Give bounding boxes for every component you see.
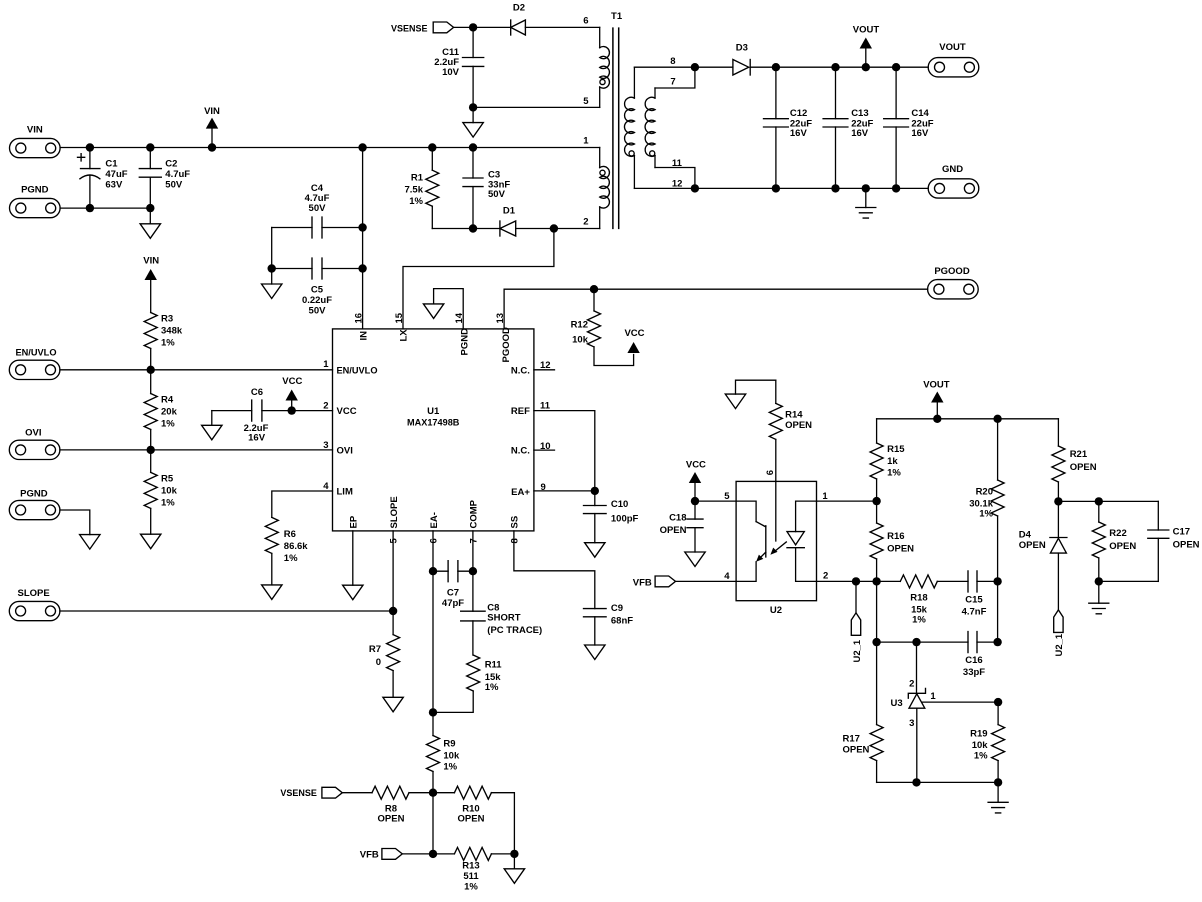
wire LIM to R6: [272, 491, 333, 517]
net flag VFB (bottom): [360, 849, 403, 861]
capacitor C13: [823, 67, 873, 188]
ground at EP: [343, 531, 363, 600]
svg-text:7: 7: [468, 538, 479, 543]
connector GND J4: [928, 164, 979, 198]
resistor R12: [571, 289, 634, 365]
svg-text:EA+: EA+: [511, 487, 530, 498]
junction SLOPE: [389, 607, 397, 615]
resistor R6: [265, 517, 308, 585]
U1 pin 11 REF label: [511, 401, 551, 418]
svg-text:C12: C12: [790, 108, 807, 119]
svg-text:348k: 348k: [161, 326, 183, 337]
svg-text:D4: D4: [1019, 529, 1032, 540]
resistor R22: [1092, 501, 1136, 581]
junction R19 top: [994, 698, 1002, 706]
U1 pin 13 PGOOD label: [495, 313, 512, 363]
ground below PGND stub: [80, 535, 100, 550]
junction C5 right: [358, 264, 366, 272]
svg-text:N.C.: N.C.: [511, 446, 530, 457]
svg-text:4.7nF: 4.7nF: [962, 607, 987, 618]
svg-text:6: 6: [765, 470, 776, 475]
U1 pin 3 OVI label: [323, 440, 353, 457]
svg-text:4: 4: [724, 571, 730, 582]
svg-text:PGND: PGND: [20, 488, 48, 499]
ground below R6: [262, 585, 282, 600]
svg-text:50V: 50V: [488, 189, 506, 200]
shunt regulator U3: [891, 642, 937, 729]
svg-text:50V: 50V: [165, 180, 183, 191]
svg-text:N.C.: N.C.: [511, 365, 530, 376]
capacitor C11: [434, 27, 484, 107]
capacitor C9: [584, 603, 634, 645]
U1 pin 5 SLOPE label: [389, 496, 400, 543]
wire EA+ net: [534, 490, 595, 492]
svg-text:C6: C6: [251, 387, 263, 398]
svg-text:(PC TRACE): (PC TRACE): [487, 625, 542, 636]
ground at C6: [202, 411, 222, 440]
U1 N.C. stub pin 10: [534, 449, 555, 451]
svg-text:OPEN: OPEN: [1109, 541, 1136, 552]
transformer T1 secondary winding 7-11: [645, 88, 655, 168]
svg-text:VCC: VCC: [686, 460, 706, 471]
svg-text:R3: R3: [161, 314, 173, 325]
power flag VIN at R3: [143, 255, 159, 312]
transformer T1 core: [613, 27, 619, 229]
svg-text:0: 0: [376, 657, 381, 668]
wire U2 pin 2 to R18 row: [817, 580, 901, 582]
earth ground below R22: [1089, 581, 1109, 613]
svg-text:D2: D2: [513, 2, 525, 13]
net flag VSENSE (bottom): [280, 787, 342, 799]
svg-text:VIN: VIN: [204, 106, 220, 117]
wire R1/C3 bottom row: [432, 228, 500, 230]
svg-text:1: 1: [323, 359, 329, 370]
net flag U2_1 (left): [851, 581, 863, 662]
connector PGOOD J5: [928, 266, 979, 299]
U1 pin 6 EA- label: [428, 512, 439, 543]
svg-text:MAX17498B: MAX17498B: [407, 418, 460, 429]
capacitor C7: [433, 561, 473, 610]
capacitor C15: [962, 571, 998, 618]
power flag VOUT (top): [853, 25, 880, 68]
svg-text:EN/UVLO: EN/UVLO: [337, 365, 378, 376]
wire VIN rail: [60, 147, 600, 149]
wire U2 pin 1 to R15/R16: [817, 500, 877, 502]
junction U3 pin3 bottom: [912, 778, 920, 786]
wire pin 8 to D3: [695, 66, 733, 68]
capacitor C3: [463, 148, 510, 229]
junction IN drop / rail: [358, 143, 366, 151]
ground below R7: [383, 697, 403, 712]
wire T1 pin 11 link: [655, 168, 695, 189]
wire VSENSE to D2: [454, 26, 511, 28]
ground below C18: [685, 552, 705, 567]
junction R9 top: [429, 708, 437, 716]
capacitor C6: [212, 387, 333, 444]
junction U2 pin1/R15/R16: [872, 497, 880, 505]
svg-text:OVI: OVI: [25, 428, 41, 439]
junction earth: [862, 184, 870, 192]
wire REF net: [534, 411, 595, 491]
svg-text:R15: R15: [887, 444, 905, 455]
svg-text:OPEN: OPEN: [1070, 462, 1097, 473]
wire R22/C17 bottom row: [1099, 580, 1159, 582]
ground below R5: [141, 534, 161, 549]
junction pins 7/8: [691, 63, 699, 71]
svg-text:OPEN: OPEN: [660, 525, 687, 536]
svg-text:EP: EP: [349, 515, 360, 528]
svg-text:2: 2: [909, 679, 914, 690]
U1 pin 14 PGND label: [454, 312, 470, 355]
capacitor C8: [461, 603, 542, 655]
svg-text:R4: R4: [161, 395, 174, 406]
svg-text:3: 3: [909, 718, 914, 729]
U1 pin 12 N.C. label: [511, 360, 551, 376]
svg-text:OVI: OVI: [337, 446, 353, 457]
junction R3/R4: [147, 366, 155, 374]
svg-text:2: 2: [323, 401, 328, 412]
svg-text:R21: R21: [1070, 449, 1088, 460]
svg-text:1%: 1%: [161, 498, 175, 509]
junction U3 tap: [912, 638, 920, 646]
svg-text:VCC: VCC: [282, 376, 302, 387]
svg-text:63V: 63V: [105, 180, 123, 191]
svg-text:C2: C2: [165, 159, 177, 170]
wire R9 bottom to VFB: [432, 793, 434, 854]
wire SLOPE pin 5 drop: [392, 531, 394, 611]
resistor R13: [433, 847, 514, 892]
svg-text:6: 6: [428, 538, 439, 543]
capacitor C16: [963, 632, 998, 678]
power flag VCC at U2: [686, 460, 706, 501]
svg-text:PGOOD: PGOOD: [501, 327, 512, 363]
svg-text:R9: R9: [443, 738, 455, 749]
wire T1 pin 8 out: [634, 66, 695, 68]
svg-text:1: 1: [583, 136, 589, 147]
svg-text:VIN: VIN: [27, 125, 43, 136]
junction VIN flag: [208, 143, 216, 151]
connector PGND J2: [10, 185, 61, 218]
svg-text:VCC: VCC: [624, 328, 644, 339]
svg-text:LIM: LIM: [337, 487, 353, 498]
resistor R5: [144, 450, 177, 534]
junction R19 bottom: [994, 778, 1002, 786]
resistor R3: [144, 313, 183, 370]
svg-text:EN/UVLO: EN/UVLO: [16, 347, 57, 358]
svg-text:C18: C18: [669, 513, 686, 524]
svg-text:VCC: VCC: [337, 406, 357, 417]
diode D1: [500, 206, 516, 237]
wire COMP pin 7 drop: [472, 531, 474, 611]
svg-text:VSENSE: VSENSE: [280, 788, 317, 799]
svg-text:R5: R5: [161, 474, 174, 485]
ground below C5 left: [262, 269, 282, 299]
wire R20 bottom to C16 row: [997, 581, 999, 642]
wire R16 bottom to C16 row: [876, 581, 878, 642]
resistor R10: [433, 786, 514, 854]
junction R20 top: [993, 415, 1001, 423]
wire T1 pin 7 link: [655, 67, 695, 88]
junction C16 right: [993, 638, 1001, 646]
svg-text:0.22uF: 0.22uF: [302, 295, 332, 306]
resistor R19: [970, 702, 1004, 782]
svg-text:8: 8: [670, 56, 675, 67]
wire SLOPE net: [60, 610, 393, 612]
svg-text:2: 2: [823, 571, 828, 582]
svg-text:68nF: 68nF: [611, 616, 633, 627]
svg-text:8: 8: [509, 538, 520, 543]
capacitor C4: [272, 183, 363, 238]
U1 pin 4 LIM label: [323, 481, 353, 498]
svg-text:1%: 1%: [284, 553, 298, 564]
svg-text:16: 16: [354, 313, 365, 324]
capacitor C12: [764, 67, 813, 188]
svg-text:OPEN: OPEN: [378, 814, 405, 825]
svg-text:1%: 1%: [974, 751, 988, 762]
svg-text:2: 2: [583, 217, 588, 228]
svg-text:PGND: PGND: [21, 185, 49, 196]
ground below C2: [140, 208, 160, 238]
resistor R11: [433, 655, 502, 712]
svg-text:12: 12: [672, 179, 683, 190]
diode D2: [511, 2, 526, 35]
wire bottom row U3: [877, 781, 999, 783]
ground at R14: [725, 380, 776, 408]
resistor R9: [427, 712, 460, 792]
resistor R8: [372, 786, 433, 824]
junction C15 right: [993, 577, 1001, 585]
resistor R1: [405, 148, 439, 229]
power flag VOUT (right): [923, 380, 950, 419]
svg-text:SHORT: SHORT: [487, 613, 520, 624]
svg-text:VFB: VFB: [360, 849, 379, 860]
svg-text:OPEN: OPEN: [1019, 540, 1046, 551]
svg-text:GND: GND: [942, 164, 963, 175]
U1 pin 7 COMP label: [468, 499, 479, 543]
wire OVI net: [60, 449, 333, 451]
svg-text:R17: R17: [843, 734, 860, 745]
junction C16 row left: [872, 638, 880, 646]
svg-text:IN: IN: [359, 331, 370, 341]
svg-text:1%: 1%: [161, 419, 175, 430]
power flag VCC at R12: [624, 328, 644, 353]
ground below R13: [504, 854, 524, 883]
capacitor C5: [272, 258, 363, 317]
svg-text:C17: C17: [1173, 526, 1190, 537]
resistor R4: [144, 370, 177, 450]
svg-text:R12: R12: [571, 320, 588, 331]
svg-text:1%: 1%: [161, 338, 175, 349]
capacitor C18: [660, 501, 703, 552]
svg-text:R13: R13: [462, 860, 479, 871]
svg-text:1%: 1%: [979, 508, 993, 519]
svg-text:1k: 1k: [887, 456, 898, 467]
svg-text:U2_1: U2_1: [852, 639, 863, 662]
junction U2_1 tap: [852, 577, 860, 585]
svg-text:C5: C5: [311, 285, 324, 296]
svg-text:10k: 10k: [972, 740, 989, 751]
wire EA- pin 6 drop: [432, 531, 434, 713]
svg-text:R16: R16: [887, 531, 904, 542]
capacitor C10: [584, 491, 639, 543]
ground below C11: [463, 107, 483, 137]
svg-text:1%: 1%: [409, 196, 423, 207]
junction R10/R13: [510, 850, 518, 858]
svg-text:16V: 16V: [790, 128, 808, 139]
junction R8/R9/R10: [429, 789, 437, 797]
wire PGND rail: [60, 207, 150, 209]
svg-text:PGND: PGND: [460, 328, 471, 356]
resistor R18: [900, 575, 968, 626]
connector PGND J8: [9, 488, 60, 519]
svg-text:U2: U2: [770, 605, 782, 616]
power flag VIN on rail: [204, 106, 220, 148]
svg-text:20k: 20k: [161, 407, 178, 418]
svg-text:EA-: EA-: [429, 512, 440, 528]
connector VIN J1: [10, 125, 61, 158]
svg-text:OPEN: OPEN: [887, 543, 914, 554]
wire PGND stub: [60, 510, 90, 535]
capacitor C2: [139, 148, 190, 209]
svg-text:4: 4: [323, 481, 329, 492]
wire VCC to U2 pin 5: [695, 500, 736, 502]
resistor R14: [769, 380, 812, 481]
net flag VFB (middle): [633, 576, 676, 588]
svg-text:R11: R11: [485, 660, 503, 671]
svg-text:1%: 1%: [485, 682, 499, 693]
junction C2 top: [146, 143, 154, 151]
junction C7 left: [429, 567, 437, 575]
svg-text:U1: U1: [427, 406, 440, 417]
wire VOUT rail right: [877, 418, 1059, 420]
resistor R21: [1052, 419, 1097, 502]
svg-text:R22: R22: [1109, 528, 1126, 539]
ground at pin 14 PGND: [423, 289, 463, 329]
wire C16 row: [877, 641, 968, 643]
svg-text:VIN: VIN: [143, 255, 159, 266]
ground below C9: [585, 645, 605, 660]
svg-text:SS: SS: [510, 516, 521, 529]
U1 pin 9 EA+ label: [511, 482, 546, 498]
U1 pin 2 VCC label: [323, 401, 356, 418]
svg-text:VSENSE: VSENSE: [391, 23, 428, 34]
svg-text:C1: C1: [105, 159, 118, 170]
junction C11 top: [469, 23, 477, 31]
svg-text:11: 11: [540, 401, 551, 412]
diode D3: [733, 43, 750, 76]
svg-text:VFB: VFB: [633, 577, 652, 588]
ground below C10: [585, 543, 605, 558]
junction R16 bottom: [872, 577, 880, 585]
svg-text:C9: C9: [611, 603, 623, 614]
svg-text:10V: 10V: [442, 67, 460, 78]
svg-text:SLOPE: SLOPE: [389, 496, 400, 528]
svg-text:511: 511: [463, 871, 479, 882]
resistor R16: [870, 501, 914, 581]
svg-text:VOUT: VOUT: [853, 25, 880, 36]
U1 pin 8 SS label: [509, 516, 520, 544]
connector OVI J7: [9, 428, 60, 460]
junction C2 bottom: [146, 204, 154, 212]
svg-text:VOUT: VOUT: [923, 380, 950, 391]
junction VCC pin 2: [288, 406, 296, 414]
svg-text:C7: C7: [447, 587, 459, 598]
svg-text:C13: C13: [851, 108, 868, 119]
transformer T1 primary winding 6-5: [600, 27, 610, 107]
wire VOUT top rail: [750, 66, 928, 68]
wire EN/UVLO net: [60, 369, 333, 371]
svg-text:1%: 1%: [464, 882, 478, 893]
svg-text:SLOPE: SLOPE: [17, 588, 49, 599]
svg-text:T1: T1: [611, 11, 623, 22]
svg-text:R6: R6: [284, 529, 296, 540]
svg-text:47pF: 47pF: [442, 598, 464, 609]
junction C14 bottom: [892, 184, 900, 192]
svg-text:1%: 1%: [887, 468, 901, 479]
wire VSENSE to R8: [342, 792, 372, 794]
junction R21 bottom: [1054, 497, 1062, 505]
wire SS net: [514, 531, 595, 609]
svg-text:16V: 16V: [911, 128, 929, 139]
svg-text:C14: C14: [911, 108, 929, 119]
svg-text:1%: 1%: [912, 615, 926, 626]
junction REF/EA+: [591, 487, 599, 495]
svg-text:OPEN: OPEN: [1173, 539, 1200, 550]
junction R12 top: [590, 285, 598, 293]
svg-text:50V: 50V: [309, 203, 327, 214]
svg-text:16V: 16V: [851, 128, 869, 139]
svg-text:5: 5: [583, 96, 589, 107]
wire C11 to T1 pin 5: [473, 106, 600, 108]
wire C4-C5 left link: [271, 228, 273, 269]
wire T1 pin 12 out: [634, 187, 928, 189]
power flag VCC at pin 2: [282, 376, 302, 410]
svg-text:4.7uF: 4.7uF: [165, 169, 190, 180]
connector SLOPE J9: [9, 588, 60, 621]
svg-text:11: 11: [672, 158, 683, 169]
svg-text:50V: 50V: [309, 306, 327, 317]
svg-text:5: 5: [389, 538, 400, 544]
junction C13 bottom: [831, 184, 839, 192]
svg-text:C16: C16: [965, 655, 982, 666]
svg-text:OPEN: OPEN: [843, 745, 870, 756]
svg-text:LX: LX: [399, 329, 410, 342]
svg-text:C10: C10: [611, 499, 628, 510]
earth ground below output: [856, 188, 876, 218]
junction VCC/C18/pin5: [691, 497, 699, 505]
junction C5 left: [268, 264, 276, 272]
svg-text:OPEN: OPEN: [458, 814, 485, 825]
junction C12 bottom: [772, 184, 780, 192]
svg-text:47uF: 47uF: [105, 169, 127, 180]
wire PGOOD net: [504, 289, 927, 329]
svg-text:R20: R20: [976, 487, 993, 498]
junction R22 bottom: [1095, 577, 1103, 585]
junction VFB row: [429, 850, 437, 858]
svg-text:R1: R1: [411, 173, 424, 184]
junction R1 top: [428, 143, 436, 151]
svg-text:D1: D1: [503, 206, 516, 217]
junction VOUT flag: [862, 63, 870, 71]
junction VOUT arrow: [933, 415, 941, 423]
op-amp U1 MAX17498B body: [333, 329, 534, 531]
svg-text:86.6k: 86.6k: [284, 541, 308, 552]
svg-text:7.5k: 7.5k: [405, 185, 424, 196]
earth ground below R19: [988, 782, 1008, 813]
svg-text:15: 15: [394, 312, 405, 323]
resistor R20: [969, 419, 1004, 582]
wire R21 bottom row: [1058, 500, 1158, 502]
